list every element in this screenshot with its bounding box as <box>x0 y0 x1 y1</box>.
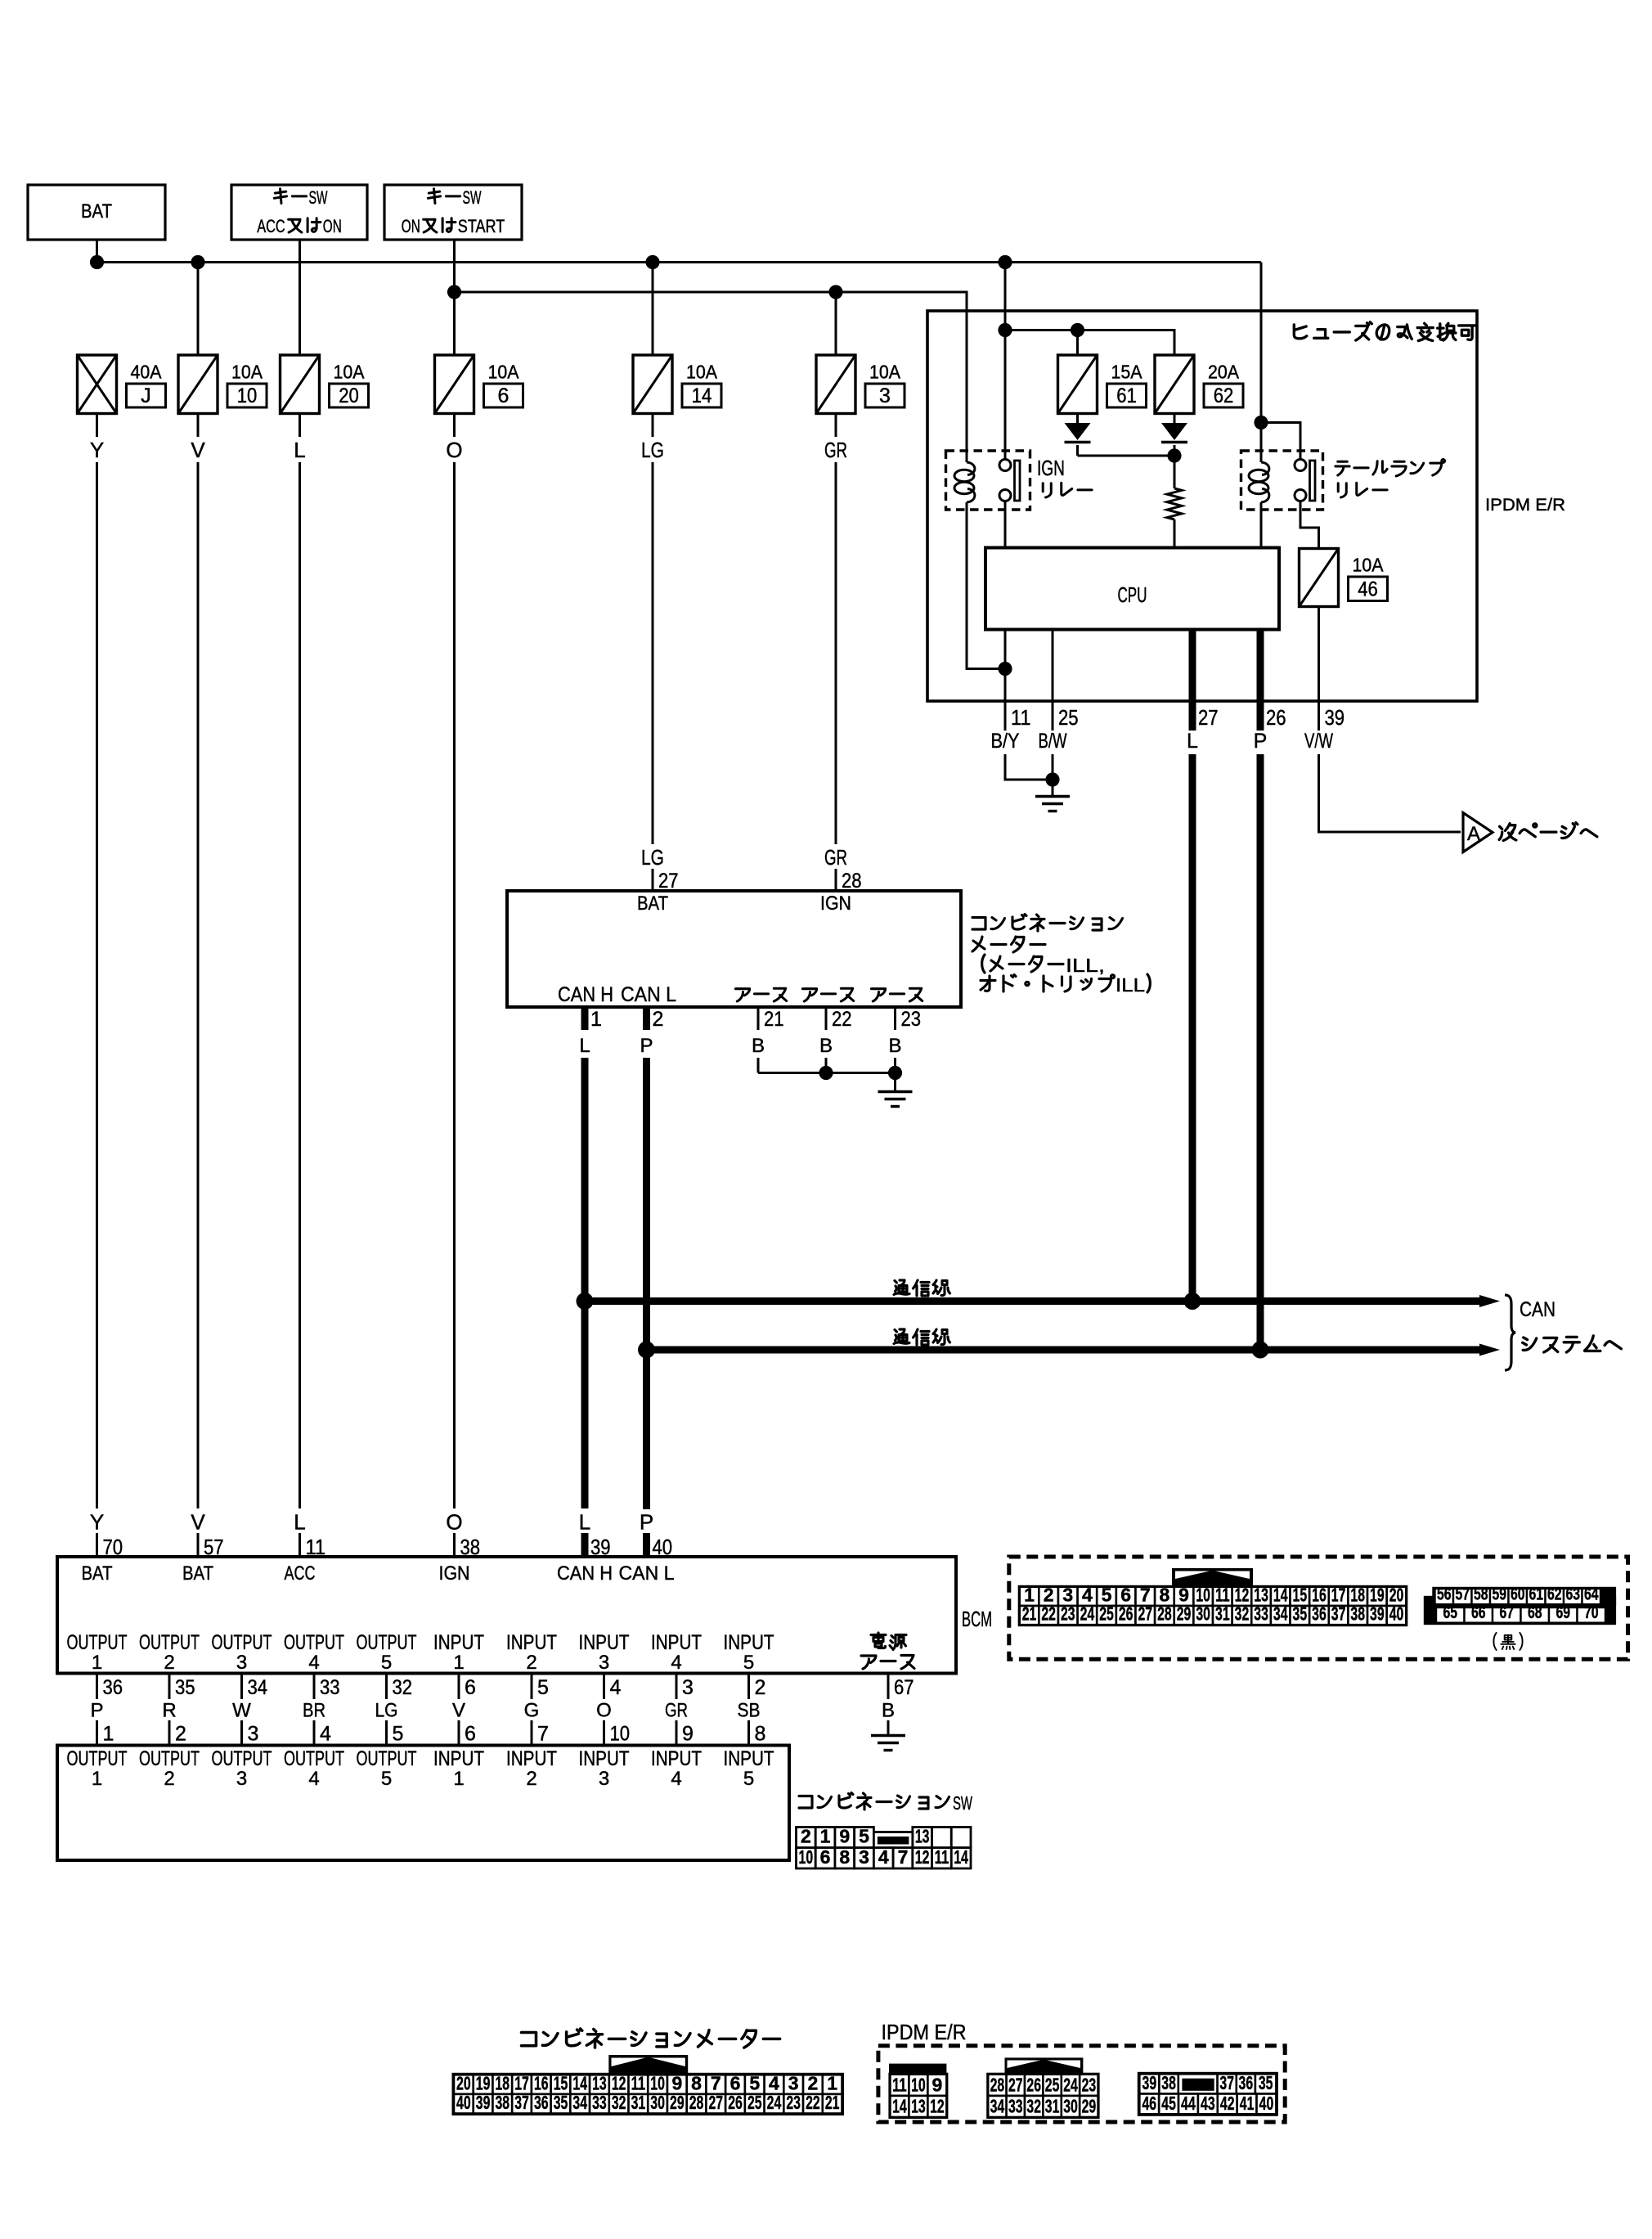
label tail relay line2 <box>1338 483 1346 497</box>
wire bus1 to fuse 14 <box>652 263 654 356</box>
fuse 46 10A <box>1300 549 1339 607</box>
svg-text:2: 2 <box>653 1008 664 1031</box>
svg-text:R: R <box>162 1700 176 1722</box>
wire ON/START keySW to fuse 6 <box>453 240 456 355</box>
pin 11 stub <box>1004 701 1007 731</box>
label meter connector <box>522 2032 536 2045</box>
wire diode D1 out <box>1076 445 1079 456</box>
svg-text:5: 5 <box>1102 1585 1112 1606</box>
svg-text:13: 13 <box>915 1826 930 1847</box>
svg-text:20: 20 <box>1389 1585 1404 1606</box>
svg-text:1: 1 <box>92 1652 102 1674</box>
wire IPDM BAT feed to IGN relay contact <box>1004 263 1007 460</box>
junction CAN L IPDM <box>1252 1342 1269 1359</box>
svg-text:14: 14 <box>892 2096 907 2117</box>
svg-text:O: O <box>596 1700 612 1722</box>
svg-text:38: 38 <box>1161 2072 1176 2093</box>
ground IPDM <box>1035 797 1070 812</box>
svg-text:L: L <box>579 1510 590 1535</box>
svg-text:33: 33 <box>320 1676 340 1699</box>
svg-text:44: 44 <box>1181 2093 1196 2114</box>
connector BCM pins 56-64 <box>1435 1585 1601 1605</box>
svg-text:4: 4 <box>610 1676 622 1699</box>
svg-text:2: 2 <box>1044 1585 1054 1606</box>
svg-text:5: 5 <box>381 1652 392 1674</box>
wire resistor to CPU <box>1174 519 1176 548</box>
fuse 14 10A <box>633 355 672 414</box>
svg-text:60: 60 <box>1511 1585 1525 1604</box>
wire tail coil to CPU <box>1260 510 1263 548</box>
label to next page <box>1499 824 1516 841</box>
BCM lower pin 6 stub <box>458 1674 460 1700</box>
node key SW ACC box <box>231 185 367 240</box>
wire bus1 corner to tail relay <box>1260 263 1263 423</box>
wire earth bus <box>758 1072 896 1074</box>
junction earth 23 <box>888 1066 902 1080</box>
connector BCM detail dashed box <box>1009 1557 1628 1659</box>
relay IGN dashed box <box>946 451 1030 510</box>
combSW pin 10 stub <box>603 1720 605 1746</box>
junction CAN H meter <box>577 1293 594 1310</box>
svg-text:32: 32 <box>393 1676 413 1699</box>
svg-text:3: 3 <box>599 1652 609 1674</box>
wire LG run to meter <box>652 462 654 844</box>
svg-text:14: 14 <box>954 1846 968 1868</box>
svg-text:27: 27 <box>1008 2074 1023 2095</box>
svg-text:10: 10 <box>237 384 258 407</box>
svg-text:46: 46 <box>1142 2093 1156 2114</box>
svg-text:21: 21 <box>764 1008 784 1031</box>
svg-text:1: 1 <box>1024 1585 1035 1606</box>
junction earth 22 <box>819 1066 833 1080</box>
svg-text:W: W <box>232 1700 251 1722</box>
svg-text:28: 28 <box>842 870 862 892</box>
connector IPDM A black bar <box>889 2064 946 2075</box>
svg-text:5: 5 <box>381 1768 392 1790</box>
svg-text:35: 35 <box>554 2092 568 2113</box>
node A to next page arrow <box>1463 813 1493 852</box>
svg-text:41: 41 <box>1240 2093 1255 2114</box>
svg-text:INPUT: INPUT <box>433 1747 484 1770</box>
node BAT supply box <box>28 185 165 240</box>
svg-text:18: 18 <box>1350 1585 1365 1606</box>
svg-text:ILL,: ILL, <box>1066 955 1105 976</box>
svg-text:IGN: IGN <box>820 892 851 915</box>
fuse 6 10A <box>435 355 474 414</box>
svg-text:GR: GR <box>824 438 847 462</box>
meter pin 23 stub <box>894 1007 896 1030</box>
svg-text:6: 6 <box>498 384 510 407</box>
svg-text:35: 35 <box>175 1676 195 1699</box>
connector BCM pins 65-70 <box>1436 1603 1605 1623</box>
combSW pin 9 stub <box>676 1720 678 1746</box>
svg-text:18: 18 <box>496 2072 510 2093</box>
svg-text:2: 2 <box>808 2072 819 2093</box>
svg-text:26: 26 <box>728 2092 743 2113</box>
label fuse 20 10A <box>330 362 369 408</box>
svg-text:6: 6 <box>465 1723 476 1746</box>
wire diode join <box>1078 455 1175 457</box>
label power <box>871 1633 886 1648</box>
svg-text:8: 8 <box>1160 1585 1170 1606</box>
svg-text:21: 21 <box>825 2092 840 2113</box>
svg-text:GR: GR <box>665 1700 688 1722</box>
svg-text:L: L <box>294 438 305 462</box>
wire tail relay contact feed <box>1261 423 1300 460</box>
svg-text:4: 4 <box>671 1768 681 1790</box>
relay tail coil <box>1249 451 1269 510</box>
junction bus2 start <box>447 285 461 299</box>
svg-text:7: 7 <box>537 1723 549 1746</box>
svg-text:5: 5 <box>743 1652 754 1674</box>
svg-text:1: 1 <box>590 1008 602 1031</box>
svg-text:25: 25 <box>1045 2074 1060 2095</box>
svg-text:1: 1 <box>92 1768 102 1790</box>
svg-text:27: 27 <box>1198 705 1219 730</box>
svg-text:SW: SW <box>463 187 482 208</box>
wire to fuse 61 <box>1076 330 1079 356</box>
pin 27 stub <box>1189 701 1196 731</box>
svg-text:BAT: BAT <box>182 1562 213 1585</box>
svg-text:ACC: ACC <box>257 216 285 236</box>
wire bus1 to fuse 10 <box>197 263 200 356</box>
svg-text:10: 10 <box>650 2072 665 2093</box>
svg-text:26: 26 <box>1026 2074 1041 2095</box>
svg-text:2: 2 <box>164 1768 174 1790</box>
svg-text:23: 23 <box>786 2092 801 2113</box>
svg-text:70: 70 <box>1584 1603 1599 1622</box>
svg-text:17: 17 <box>1331 1585 1346 1606</box>
svg-text:23: 23 <box>1061 1603 1075 1625</box>
junction bus2 fuseGR <box>828 285 842 299</box>
svg-text:5: 5 <box>743 1768 754 1790</box>
svg-text:45: 45 <box>1161 2093 1176 2114</box>
svg-text:13: 13 <box>1254 1585 1268 1606</box>
box IPDM E/R <box>927 311 1477 701</box>
svg-text:67: 67 <box>1499 1603 1514 1622</box>
svg-text:40: 40 <box>1259 2093 1274 2114</box>
svg-text:22: 22 <box>832 1008 852 1031</box>
svg-text:OUTPUT: OUTPUT <box>357 1747 417 1770</box>
svg-text:INPUT: INPUT <box>724 1631 774 1654</box>
svg-text:11: 11 <box>1011 705 1031 730</box>
svg-text:35: 35 <box>1293 1603 1308 1625</box>
svg-text:24: 24 <box>1080 1603 1095 1625</box>
wire V segment <box>197 414 200 438</box>
svg-text:ILL: ILL <box>1116 974 1145 996</box>
svg-text:2: 2 <box>175 1723 186 1746</box>
svg-text:14: 14 <box>572 2072 587 2093</box>
BCM pin 38 stub <box>453 1533 456 1557</box>
svg-text:BAT: BAT <box>81 200 112 223</box>
svg-text:65: 65 <box>1443 1603 1457 1622</box>
wire fuse 46 to pin 39 <box>1318 607 1320 702</box>
svg-text:40: 40 <box>456 2092 471 2113</box>
svg-text:P: P <box>90 1700 103 1722</box>
label fuse J 40A <box>127 362 166 408</box>
svg-text:B: B <box>819 1035 833 1057</box>
svg-text:24: 24 <box>767 2092 782 2113</box>
meter pin 2 stub <box>643 1007 650 1030</box>
node key SW ON/START box <box>384 185 522 240</box>
wire O long run to BCM <box>453 462 456 1508</box>
svg-text:OUTPUT: OUTPUT <box>357 1631 417 1654</box>
label fuse 62 20A <box>1204 362 1243 408</box>
connector IPDM C pins 46-40 <box>1139 2093 1276 2115</box>
svg-text:INPUT: INPUT <box>651 1631 702 1654</box>
svg-text:19: 19 <box>476 2072 491 2093</box>
svg-text:IGN: IGN <box>439 1562 470 1585</box>
connector meter pins 40-21 <box>454 2092 842 2114</box>
svg-text:10: 10 <box>799 1846 814 1868</box>
svg-text:CPU: CPU <box>1118 582 1147 607</box>
svg-text:34: 34 <box>1273 1603 1288 1625</box>
svg-text:INPUT: INPUT <box>506 1747 557 1770</box>
svg-text:L: L <box>1187 730 1198 753</box>
svg-text:INPUT: INPUT <box>651 1747 702 1770</box>
connector IPDM C pins 39-35 <box>1138 2072 1278 2116</box>
svg-text:40A: 40A <box>131 362 162 383</box>
svg-text:V: V <box>452 1700 465 1722</box>
svg-text:12: 12 <box>915 1846 930 1868</box>
BCM lower pin 34 stub <box>240 1674 243 1700</box>
svg-text:LG: LG <box>641 845 664 870</box>
fuse 10 10A <box>178 355 218 414</box>
pin 39 stub <box>1318 701 1320 731</box>
wire GR segment <box>835 414 837 438</box>
svg-text:3: 3 <box>1062 1585 1073 1606</box>
svg-text:4: 4 <box>320 1723 331 1746</box>
svg-text:68: 68 <box>1528 1603 1542 1622</box>
svg-text:BCM: BCM <box>962 1607 992 1631</box>
svg-text:11: 11 <box>1215 1585 1230 1606</box>
ground BCM <box>871 1736 905 1751</box>
svg-text:9: 9 <box>671 2072 682 2093</box>
svg-text:6: 6 <box>730 2072 741 2093</box>
wire IGN contact to CPU <box>1004 501 1007 548</box>
svg-text:6: 6 <box>820 1846 831 1868</box>
svg-text:LG: LG <box>375 1700 398 1722</box>
wire L segment <box>299 414 301 438</box>
svg-text:31: 31 <box>1045 2096 1060 2117</box>
svg-text:4: 4 <box>878 1846 889 1868</box>
svg-text:42: 42 <box>1220 2093 1235 2114</box>
meter pin 22 stub <box>825 1007 828 1030</box>
junction bus1 fuse10 <box>191 255 204 269</box>
svg-text:10A: 10A <box>869 362 900 383</box>
label fuse 6 10A <box>484 362 523 408</box>
svg-text:20: 20 <box>339 384 359 407</box>
svg-text:4: 4 <box>1082 1585 1093 1606</box>
BCM lower pin 3 stub <box>676 1674 678 1700</box>
svg-text:SW: SW <box>953 1792 972 1814</box>
label power earth <box>861 1656 876 1669</box>
relay IGN coil <box>954 451 975 510</box>
svg-text:OUTPUT: OUTPUT <box>139 1747 200 1770</box>
connector meter tab <box>608 2055 688 2075</box>
wire CAN L meter to BCM <box>643 1058 650 1509</box>
svg-text:12: 12 <box>1235 1585 1250 1606</box>
combSW pin 5 stub <box>385 1720 388 1746</box>
connector BCM 1-40 tab <box>1172 1568 1253 1587</box>
svg-text:OUTPUT: OUTPUT <box>67 1631 128 1654</box>
label earth 21 <box>735 989 749 1001</box>
svg-text:61: 61 <box>1116 384 1137 407</box>
svg-text:6: 6 <box>465 1676 476 1699</box>
svg-text:62: 62 <box>1547 1585 1562 1604</box>
connector BCM pins 21-40 <box>1020 1603 1407 1625</box>
svg-text:9: 9 <box>839 1826 850 1847</box>
svg-text:5: 5 <box>859 1826 869 1847</box>
svg-text:31: 31 <box>631 2092 646 2113</box>
svg-text:39: 39 <box>1142 2072 1157 2093</box>
svg-text:33: 33 <box>1254 1603 1268 1625</box>
svg-text:11: 11 <box>892 2074 907 2095</box>
label fuse 14 10A <box>682 362 721 408</box>
BCM pin 11 stub <box>299 1533 301 1557</box>
svg-text:19: 19 <box>1370 1585 1385 1606</box>
brace CAN system <box>1505 1295 1515 1370</box>
svg-text:26: 26 <box>1119 1603 1134 1625</box>
svg-text:36: 36 <box>1312 1603 1327 1625</box>
connector combination SW pins <box>797 1826 972 1868</box>
junction ground <box>1045 772 1059 786</box>
wire diode D2 out <box>1174 445 1176 456</box>
svg-text:V: V <box>191 1510 205 1535</box>
wire CPU pin 27 CAN-H thick <box>1189 630 1196 702</box>
svg-text:11: 11 <box>631 2072 646 2093</box>
svg-text:V: V <box>191 438 205 462</box>
svg-text:34: 34 <box>248 1676 268 1699</box>
junction tail relay feed <box>1254 416 1268 429</box>
label combination meter text line1 <box>972 918 985 930</box>
svg-text:28: 28 <box>1157 1603 1172 1625</box>
svg-text:4: 4 <box>308 1768 319 1790</box>
svg-text:IGN: IGN <box>1037 457 1065 480</box>
svg-text:INPUT: INPUT <box>724 1747 774 1770</box>
svg-text:2: 2 <box>801 1826 811 1847</box>
svg-text:12: 12 <box>930 2096 945 2117</box>
svg-text:6: 6 <box>1120 1585 1131 1606</box>
svg-text:ON: ON <box>402 216 420 236</box>
svg-text:1: 1 <box>103 1723 114 1746</box>
svg-text:ON: ON <box>323 216 342 236</box>
box BCM <box>57 1557 956 1674</box>
svg-text:OUTPUT: OUTPUT <box>284 1631 344 1654</box>
relay tail contact <box>1295 460 1315 501</box>
svg-text:34: 34 <box>572 2092 587 2113</box>
meter pin 21 stub <box>757 1007 760 1030</box>
svg-text:69: 69 <box>1555 1603 1570 1622</box>
label black connector <box>1493 1633 1496 1650</box>
svg-text:ACC: ACC <box>285 1562 316 1585</box>
junction bus1 IPDM <box>998 255 1012 269</box>
BCM lower pin 33 stub <box>313 1674 316 1700</box>
wire tail relay coil feed <box>1260 423 1263 452</box>
junction fuse 61 branch <box>1071 323 1084 337</box>
svg-text:9: 9 <box>932 2074 943 2095</box>
wire B/Y to ground <box>1005 754 1053 780</box>
pin 26 stub <box>1257 701 1264 731</box>
svg-text:36: 36 <box>1239 2072 1254 2093</box>
wire to fuse 62 <box>1005 330 1174 356</box>
svg-text:28: 28 <box>990 2074 1005 2095</box>
svg-text:B/W: B/W <box>1039 730 1067 753</box>
svg-text:1: 1 <box>453 1768 464 1790</box>
connector IPDM B tab <box>1005 2057 1084 2075</box>
wire CAN L horizontal <box>647 1347 1486 1354</box>
svg-text:66: 66 <box>1471 1603 1486 1622</box>
svg-text:3: 3 <box>236 1768 247 1790</box>
BCM pin 70 stub <box>96 1533 98 1557</box>
svg-text:SW: SW <box>309 187 328 208</box>
wire bus2 to fuse 3 <box>835 292 837 355</box>
wire O segment <box>453 414 456 438</box>
svg-text:40: 40 <box>1389 1603 1404 1625</box>
svg-text:62: 62 <box>1214 384 1234 407</box>
svg-text:CAN H: CAN H <box>557 1562 613 1585</box>
svg-text:Y: Y <box>90 438 104 462</box>
svg-text:O: O <box>446 438 462 462</box>
svg-text:BAT: BAT <box>637 892 668 915</box>
svg-text:4: 4 <box>308 1652 319 1674</box>
svg-text:OUTPUT: OUTPUT <box>139 1631 200 1654</box>
svg-text:START: START <box>458 216 505 236</box>
svg-text:LG: LG <box>641 438 664 462</box>
wire V/W to next page <box>1319 754 1461 832</box>
svg-text:1: 1 <box>453 1652 464 1674</box>
relay tail lamp dashed box <box>1241 451 1323 510</box>
wire L long run to BCM <box>299 462 301 1508</box>
BCM lower pin 36 stub <box>96 1674 98 1700</box>
svg-text:9: 9 <box>1178 1585 1189 1606</box>
svg-text:3: 3 <box>682 1676 694 1699</box>
svg-text:L: L <box>294 1510 305 1535</box>
svg-text:IPDM E/R: IPDM E/R <box>882 2020 967 2044</box>
svg-text:22: 22 <box>1041 1603 1056 1625</box>
svg-text:30: 30 <box>650 2092 665 2113</box>
box combination meter <box>507 891 961 1007</box>
svg-text:27: 27 <box>708 2092 723 2113</box>
wire CAN H meter to BCM <box>581 1058 589 1508</box>
svg-text:7: 7 <box>898 1846 909 1868</box>
wire Y segment <box>96 414 98 438</box>
svg-text:4: 4 <box>671 1652 681 1674</box>
diode D2 <box>1161 423 1187 443</box>
wire CPU pin 11 <box>1004 630 1007 702</box>
svg-text:CAN H: CAN H <box>558 983 613 1006</box>
svg-text:1: 1 <box>827 2072 837 2093</box>
BCM lower pin 32 stub <box>385 1674 388 1700</box>
svg-text:39: 39 <box>1325 705 1345 730</box>
junction bus1 fuseLG <box>645 255 659 269</box>
svg-text:OUTPUT: OUTPUT <box>212 1747 272 1770</box>
meter pin 28 stub <box>835 869 837 891</box>
svg-text:46: 46 <box>1358 578 1378 601</box>
svg-text:28: 28 <box>689 2092 704 2113</box>
wire tail contact to fuse 46 <box>1300 501 1319 549</box>
svg-text:56: 56 <box>1437 1585 1452 1604</box>
wire B pin22 down <box>825 1058 828 1073</box>
node CAN L arrowhead <box>1479 1344 1500 1356</box>
wire GR run to meter <box>835 462 837 844</box>
svg-text:32: 32 <box>612 2092 626 2113</box>
label to CAN system <box>1523 1338 1537 1351</box>
relay IGN contact <box>999 460 1020 501</box>
svg-text:13: 13 <box>592 2072 607 2093</box>
svg-text:8: 8 <box>691 2072 702 2093</box>
svg-text:36: 36 <box>534 2092 549 2113</box>
